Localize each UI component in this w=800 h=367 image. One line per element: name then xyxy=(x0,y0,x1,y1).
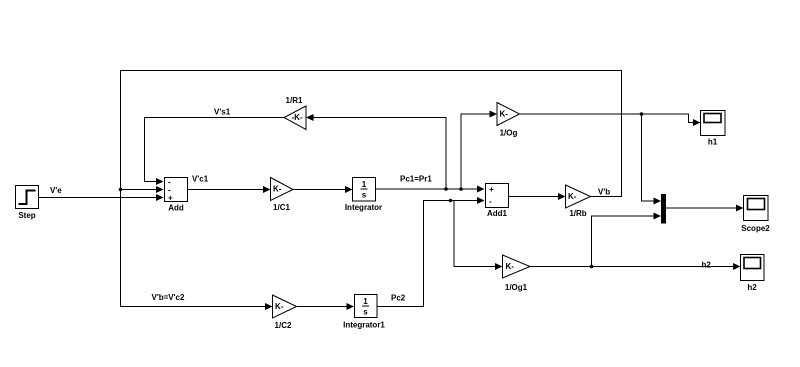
node arrow into Add input 2 xyxy=(156,186,164,193)
node junction dot Pc1 branch to 1/R1 xyxy=(444,187,448,191)
block gain 1/R1 (points left) xyxy=(284,96,306,130)
wire Pc1=Pr1 from Integrator to Add1 + input xyxy=(376,188,478,190)
block Add (sum) xyxy=(165,178,188,213)
wire riser to 1/Og input xyxy=(461,114,490,189)
block gain 1/C2 xyxy=(273,295,297,330)
wire from 1/Og output junction down to Mux top input xyxy=(642,114,654,201)
node arrow into Mux top input xyxy=(654,198,662,205)
node junction dot on 1/Og output xyxy=(640,112,644,116)
block Scope2 xyxy=(741,196,770,234)
svg-text:+: + xyxy=(489,185,494,194)
block scope h2 xyxy=(741,255,765,293)
wire V'e: Step output to Add bottom input xyxy=(39,197,156,199)
wire branch to Add middle input xyxy=(121,189,157,191)
block gain 1/Og1 xyxy=(503,255,531,292)
wire 1/C2 output to Integrator1 xyxy=(297,306,347,308)
block Mux xyxy=(661,194,666,224)
svg-text:-: - xyxy=(489,197,492,206)
svg-text:1/R1: 1/R1 xyxy=(286,96,303,105)
svg-text:h2: h2 xyxy=(702,261,712,270)
svg-text:V's1: V's1 xyxy=(214,108,231,117)
svg-text:1/Og1: 1/Og1 xyxy=(505,283,528,292)
svg-text:K-: K- xyxy=(568,192,577,201)
svg-text:Add1: Add1 xyxy=(487,209,508,218)
node junction dot on 1/Og1 output xyxy=(590,265,594,269)
svg-text:K-: K- xyxy=(500,110,509,119)
svg-text:s: s xyxy=(363,308,368,317)
node junction dot at x=121 on Add middle branch xyxy=(119,188,123,192)
block Integrator1 xyxy=(343,295,385,330)
svg-text:K-: K- xyxy=(273,185,282,194)
svg-text:1: 1 xyxy=(362,180,367,189)
node arrow into Integrator1 xyxy=(347,303,355,310)
svg-text:Step: Step xyxy=(18,211,35,220)
svg-text:V'b: V'b xyxy=(598,188,610,197)
wire 1/Og output to h1 xyxy=(520,114,694,123)
svg-text:Integrator: Integrator xyxy=(345,203,382,212)
svg-text:s: s xyxy=(362,191,367,200)
wire V's1 feedback from 1/R1 to Add input 1 xyxy=(145,118,285,182)
node junction dot on Add1 - input wire xyxy=(449,199,453,203)
node arrow into Add1 input + xyxy=(477,186,485,193)
node arrow into Integrator xyxy=(345,186,353,193)
svg-text:K-: K- xyxy=(506,262,515,271)
svg-text:V'c1: V'c1 xyxy=(192,175,209,184)
wire down to 1/Og1 input xyxy=(454,201,495,267)
block Integrator xyxy=(345,178,382,213)
svg-text:1/C1: 1/C1 xyxy=(273,203,290,212)
svg-text:Scope2: Scope2 xyxy=(741,224,770,233)
svg-text:+: + xyxy=(168,194,173,203)
svg-text:h2: h2 xyxy=(747,283,757,292)
node junction dot Pc1 branch to 1/Og xyxy=(459,187,463,191)
svg-text:Add: Add xyxy=(168,204,184,213)
wire Mux output to Scope2 xyxy=(666,207,736,209)
node arrow into Add input 1 xyxy=(156,178,164,185)
svg-text:1/Og: 1/Og xyxy=(500,129,518,138)
node arrow into Scope2 xyxy=(736,205,744,212)
svg-text:h1: h1 xyxy=(708,138,718,147)
svg-text:Pc1=Pr1: Pc1=Pr1 xyxy=(400,175,432,184)
wire Add1 output to 1/Rb xyxy=(509,196,558,198)
block Add1 (sum) xyxy=(486,184,509,219)
block Step xyxy=(16,186,39,221)
node arrow into 1/Rb xyxy=(558,193,566,200)
wire big feedback loop V'b xyxy=(121,71,622,307)
svg-text:V'b=V'c2: V'b=V'c2 xyxy=(152,293,185,302)
block gain 1/C1 xyxy=(271,178,294,213)
svg-text:-K-: -K- xyxy=(292,113,303,122)
svg-text:1: 1 xyxy=(363,297,368,306)
node arrow into Add1 input - xyxy=(477,197,485,204)
svg-text:V'e: V'e xyxy=(50,186,62,195)
svg-text:1/C2: 1/C2 xyxy=(275,321,292,330)
wire Add output to 1/C1 xyxy=(188,189,263,191)
svg-text:Integrator1: Integrator1 xyxy=(343,321,385,330)
node arrow into Add input 3 xyxy=(156,194,164,201)
node arrow into 1/Og1 xyxy=(495,263,503,270)
wire 1/C1 output to Integrator xyxy=(293,189,345,191)
wire riser to 1/R1 input xyxy=(314,118,447,190)
node arrow into h1 xyxy=(693,119,701,126)
node arrow into 1/Og xyxy=(490,111,498,118)
node arrow into 1/C2 xyxy=(265,303,273,310)
wire 1/Og1 output to h2 xyxy=(530,266,733,268)
svg-text:1/Rb: 1/Rb xyxy=(569,209,586,218)
node arrow into Mux bottom input xyxy=(654,213,662,220)
node arrow into h2 xyxy=(733,263,741,270)
node arrow into 1/C1 xyxy=(263,186,271,193)
block scope h1 xyxy=(701,111,726,147)
block gain 1/Og xyxy=(497,103,520,138)
svg-text:Pc2: Pc2 xyxy=(391,294,406,303)
wire Pc2 from Integrator1 up to Add1 - input xyxy=(377,201,477,307)
block gain 1/Rb xyxy=(566,185,591,218)
wire from 1/Og1 output junction up to Mux bottom input xyxy=(592,216,654,267)
svg-text:K-: K- xyxy=(275,302,284,311)
node arrow into 1/R1 (pointing left) xyxy=(306,114,314,121)
